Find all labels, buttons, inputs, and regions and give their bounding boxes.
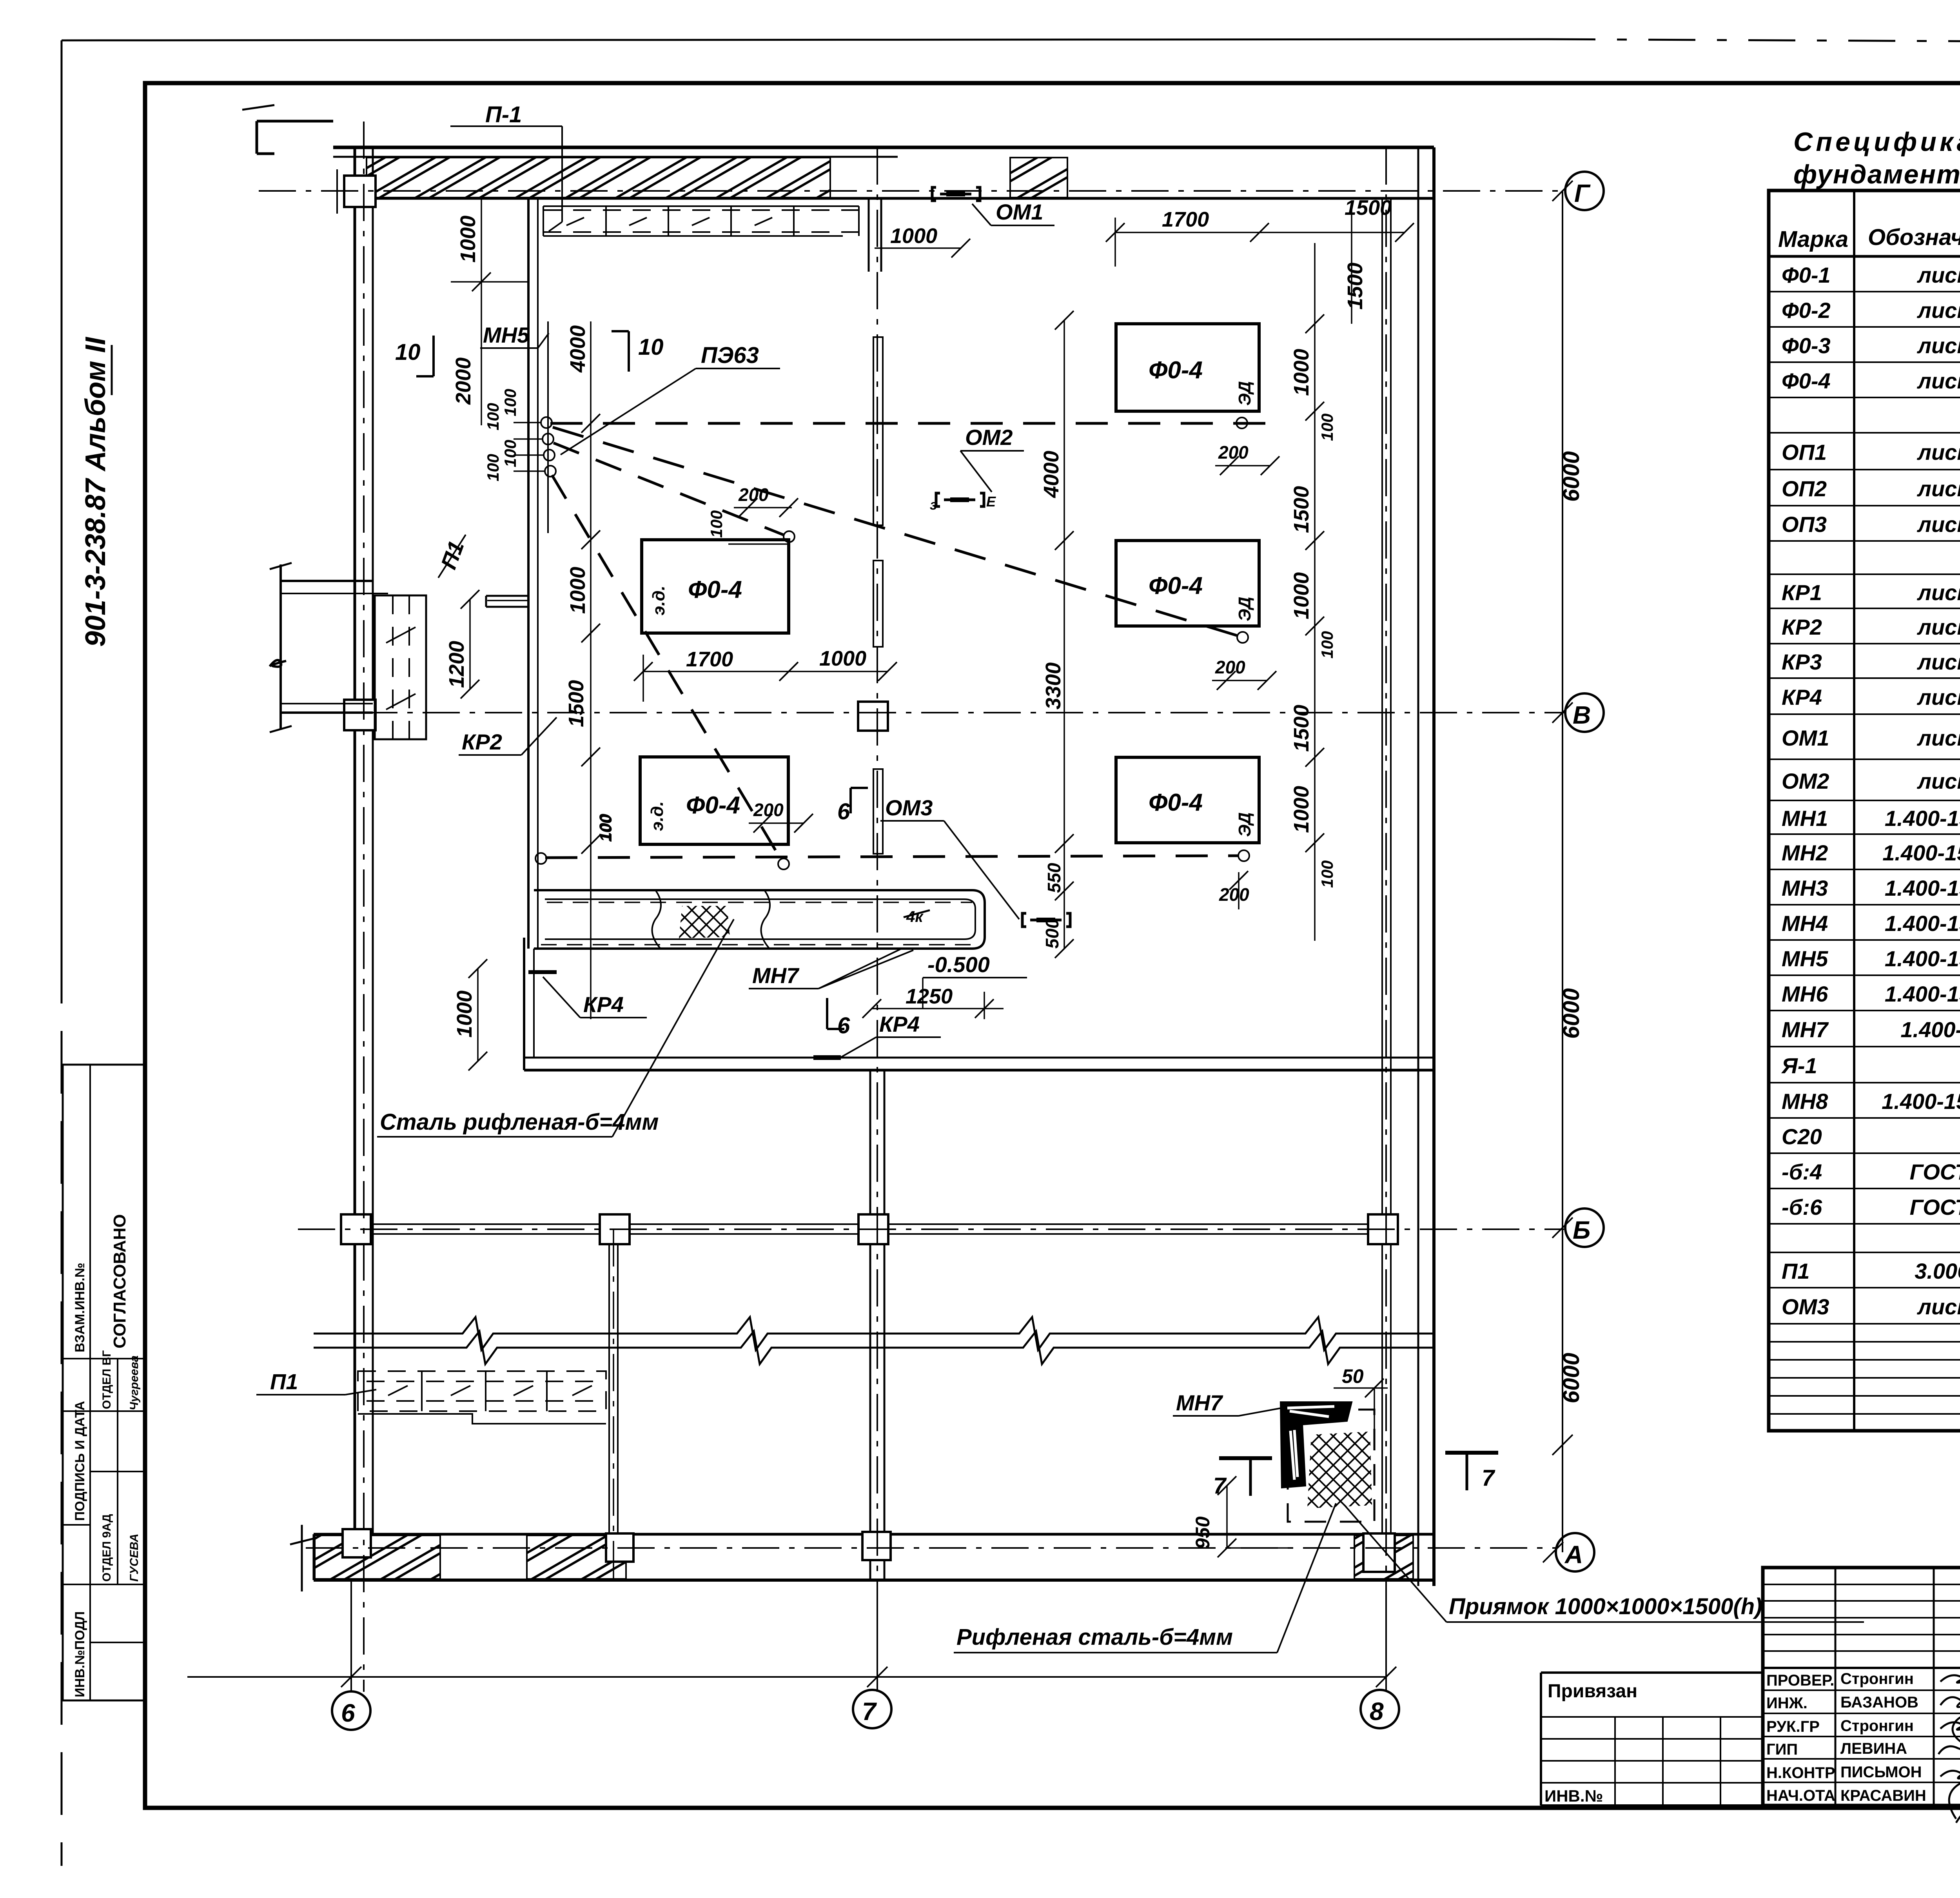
axis 7 wall lower part xyxy=(869,1070,871,1580)
svg-text:Чугреева: Чугреева xyxy=(128,1355,141,1410)
svg-text:КР4: КР4 xyxy=(1782,685,1822,709)
foundation FO-4 low left xyxy=(640,757,788,844)
svg-text:КР1: КР1 xyxy=(1782,580,1822,605)
svg-text:КРАСАВИН: КРАСАВИН xyxy=(1840,1787,1926,1804)
svg-text:ВЗАМ.ИНВ.№: ВЗАМ.ИНВ.№ xyxy=(73,1263,87,1352)
dashed long diagonal to right anchor xyxy=(553,427,1238,636)
svg-text:лист КЖ 32: лист КЖ 32 xyxy=(1916,263,1960,287)
lower long dashed line xyxy=(545,856,1239,858)
svg-text:500: 500 xyxy=(1042,918,1062,949)
upper long dashed line xyxy=(550,422,1266,425)
column on axis G left xyxy=(344,176,376,207)
svg-text:НАЧ.ОТА: НАЧ.ОТА xyxy=(1766,1787,1835,1804)
svg-text:1.400-15.В1 520: 1.400-15.В1 520 xyxy=(1900,1017,1960,1042)
bottom wall xyxy=(314,1533,1434,1536)
svg-text:Ф0-3: Ф0-3 xyxy=(1782,333,1831,358)
svg-text:ПЭ63: ПЭ63 xyxy=(701,343,759,368)
dim chain 4000/3300 x2715 xyxy=(1063,320,1065,949)
columns on axis B row xyxy=(341,1214,371,1244)
svg-text:Ф0-4: Ф0-4 xyxy=(686,792,740,819)
section mark T7 right xyxy=(1445,1451,1498,1455)
svg-text:лист КЖ 33: лист КЖ 33 xyxy=(1916,650,1960,674)
axis 7 wall stub below top wall xyxy=(868,198,870,272)
svg-text:2000: 2000 xyxy=(452,357,475,405)
svg-text:фундаментов под оборудование: фундаментов под оборудование xyxy=(1793,160,1960,189)
axis V horizontal xyxy=(298,712,1564,713)
svg-text:1500: 1500 xyxy=(564,680,588,727)
svg-text:1000: 1000 xyxy=(456,216,480,263)
MN7 corner angle xyxy=(1281,1402,1352,1488)
axis 6 vertical xyxy=(363,122,365,1692)
intermediate axis vertical lower-left xyxy=(613,1229,614,1580)
dim 1200 xyxy=(469,599,471,689)
svg-text:лист КЖ 32: лист КЖ 32 xyxy=(1916,476,1960,501)
svg-text:лист КЖ 33: лист КЖ 33 xyxy=(1916,580,1960,605)
svg-text:1500: 1500 xyxy=(1343,263,1367,310)
svg-text:7: 7 xyxy=(862,1697,877,1726)
title block outer xyxy=(1763,1568,1960,1805)
svg-text:100: 100 xyxy=(1318,414,1336,441)
pit crosshatch xyxy=(1307,1432,1372,1508)
svg-text:ОТДЕЛ ВГ: ОТДЕЛ ВГ xyxy=(100,1350,113,1409)
svg-text:1250: 1250 xyxy=(906,985,953,1008)
svg-text:Рифленая сталь-б=4мм: Рифленая сталь-б=4мм xyxy=(956,1624,1233,1650)
axis G horizontal xyxy=(259,190,1564,192)
svg-text:ИНВ.№: ИНВ.№ xyxy=(1544,1787,1603,1805)
svg-text:1000: 1000 xyxy=(819,647,866,670)
dim 1000 left of KR4 xyxy=(477,969,479,1061)
right inner pilaster band xyxy=(1381,198,1383,1534)
foundation FO-4 low right xyxy=(1116,757,1259,843)
column on axis B mid xyxy=(858,702,888,731)
svg-text:7: 7 xyxy=(1482,1465,1495,1491)
svg-text:ЭД: ЭД xyxy=(1235,381,1254,406)
axis 7 thin pier upper xyxy=(873,337,883,525)
svg-text:В: В xyxy=(1573,701,1591,729)
svg-text:1.400-15.В1.140-01: 1.400-15.В1.140-01 xyxy=(1885,876,1960,900)
top wall plate channel P-1 xyxy=(543,206,859,236)
top dim 1700/1500 xyxy=(1115,232,1405,233)
svg-text:лист КЖ 32: лист КЖ 32 xyxy=(1916,440,1960,465)
axis B horizontal xyxy=(298,1228,1564,1230)
svg-text:Н.КОНТР: Н.КОНТР xyxy=(1766,1764,1835,1782)
svg-text:лист КЖ 33: лист КЖ 33 xyxy=(1916,769,1960,793)
svg-text:50: 50 xyxy=(1342,1365,1364,1387)
svg-text:6: 6 xyxy=(837,799,850,824)
svg-text:Г: Г xyxy=(1574,179,1591,207)
svg-text:100: 100 xyxy=(501,389,519,416)
axis 7 thin pier below B xyxy=(873,769,883,854)
svg-text:МН7: МН7 xyxy=(1782,1017,1829,1042)
svg-text:1700: 1700 xyxy=(1162,208,1209,231)
top dim 1000 xyxy=(875,247,961,249)
svg-text:1000: 1000 xyxy=(1290,786,1313,833)
svg-text:3300: 3300 xyxy=(1042,662,1065,709)
svg-text:ГОСТ 8568-77: ГОСТ 8568-77 xyxy=(1910,1159,1960,1184)
axis 7 thin pier mid xyxy=(873,561,883,647)
svg-text:4000: 4000 xyxy=(566,325,590,373)
svg-text:100: 100 xyxy=(1318,860,1336,888)
svg-text:Спецификация к схеме располо: Спецификация к схеме расположения xyxy=(1793,127,1960,157)
svg-text:1500: 1500 xyxy=(1290,486,1313,533)
svg-text:КР2: КР2 xyxy=(1782,615,1822,639)
svg-text:П1: П1 xyxy=(270,1369,298,1394)
bottom P1 plate strip xyxy=(358,1371,606,1424)
right wall xyxy=(1417,147,1419,1586)
svg-text:С20: С20 xyxy=(1782,1124,1822,1149)
svg-text:1000: 1000 xyxy=(890,224,937,248)
svg-text:6000: 6000 xyxy=(1559,1353,1584,1403)
svg-text:Ф0-4: Ф0-4 xyxy=(1149,572,1203,599)
left appendage landing xyxy=(270,563,426,739)
svg-text:Стронгин: Стронгин xyxy=(1840,1717,1914,1735)
axis circle 8 xyxy=(1361,1690,1399,1728)
svg-text:ЛЕВИНА: ЛЕВИНА xyxy=(1840,1740,1907,1757)
axis circle G xyxy=(1565,172,1604,210)
svg-text:6: 6 xyxy=(341,1699,355,1727)
columns on bottom wall xyxy=(343,1529,371,1557)
bottom wall hatch segment 2 xyxy=(527,1535,626,1579)
svg-text:3.006.1 - 2/82: 3.006.1 - 2/82 xyxy=(1915,1259,1960,1283)
svg-text:4000: 4000 xyxy=(1040,451,1063,498)
svg-text:100: 100 xyxy=(596,814,614,841)
svg-text:МН4: МН4 xyxy=(1782,911,1828,936)
svg-text:МН5: МН5 xyxy=(483,323,530,347)
svg-text:100: 100 xyxy=(707,510,726,538)
svg-text:6000: 6000 xyxy=(1559,451,1584,502)
svg-text:1000: 1000 xyxy=(566,567,590,614)
svg-text:МН8: МН8 xyxy=(1782,1089,1828,1114)
break line across lower hall xyxy=(314,1317,1434,1350)
svg-text:МН3: МН3 xyxy=(1782,876,1828,900)
svg-text:БАЗАНОВ: БАЗАНОВ xyxy=(1840,1694,1918,1711)
svg-text:200: 200 xyxy=(1218,442,1249,463)
svg-text:Е: Е xyxy=(986,494,996,510)
axis circle B xyxy=(1565,1208,1604,1247)
svg-text:э.д.: э.д. xyxy=(649,586,668,615)
svg-text:лист КЖ 32: лист КЖ 32 xyxy=(1916,368,1960,393)
svg-text:100: 100 xyxy=(501,440,519,467)
bottom wall hatch segment 3 xyxy=(1354,1535,1413,1579)
svg-text:1.400-15.В1. 120-11: 1.400-15.В1. 120-11 xyxy=(1882,840,1960,865)
interior horizontal wall below hall xyxy=(524,1057,1434,1059)
svg-text:ОП2: ОП2 xyxy=(1782,476,1827,501)
svg-text:1000: 1000 xyxy=(1290,572,1313,619)
svg-text:МН5: МН5 xyxy=(1782,946,1828,971)
title block staff rows xyxy=(1766,1670,1926,1804)
svg-text:100: 100 xyxy=(484,454,502,481)
sheet outer cut border left xyxy=(61,40,63,941)
svg-text:Сталь рифленая-б=4мм: Сталь рифленая-б=4мм xyxy=(380,1109,659,1135)
svg-text:МН2: МН2 xyxy=(1782,840,1828,865)
svg-text:Марка: Марка xyxy=(1778,227,1848,252)
svg-text:МН1: МН1 xyxy=(1782,806,1828,831)
svg-text:ОМ1: ОМ1 xyxy=(996,200,1043,224)
dashed diagonal to mid anchor xyxy=(554,443,784,535)
pit square dashed xyxy=(1288,1410,1374,1522)
svg-text:ОТДЕЛ 9АД: ОТДЕЛ 9АД xyxy=(100,1514,113,1582)
svg-text:-б:6: -б:6 xyxy=(1782,1195,1822,1219)
foundation FO-4 top right xyxy=(1116,324,1259,411)
axis 8 vertical xyxy=(1385,147,1387,1692)
svg-text:ГУСЕВА: ГУСЕВА xyxy=(128,1533,141,1582)
svg-text:ЭД: ЭД xyxy=(1235,597,1254,621)
mid dim 1700/1000 xyxy=(643,671,887,672)
svg-text:А: А xyxy=(1564,1541,1583,1569)
svg-text:1200: 1200 xyxy=(445,641,468,688)
section mark 7T left xyxy=(1219,1456,1272,1460)
svg-text:ОМ2: ОМ2 xyxy=(965,425,1013,450)
svg-text:901-3-238.87 Альбом II: 901-3-238.87 Альбом II xyxy=(80,336,111,647)
intermediate column line lower-left xyxy=(608,1245,610,1534)
svg-text:1700: 1700 xyxy=(686,648,733,671)
svg-text:1.400-15.В1.120-05: 1.400-15.В1.120-05 xyxy=(1885,806,1960,831)
svg-text:КР2: КР2 xyxy=(462,729,502,754)
svg-text:Ф0-4: Ф0-4 xyxy=(1782,368,1831,393)
svg-text:1.400-15 В.1 420-03: 1.400-15 В.1 420-03 xyxy=(1882,1089,1960,1114)
svg-text:Ф0-4: Ф0-4 xyxy=(1149,357,1203,384)
left wall xyxy=(354,147,356,1580)
svg-text:1.400-15.В1.140-01: 1.400-15.В1.140-01 xyxy=(1885,982,1960,1006)
svg-text:7: 7 xyxy=(1213,1473,1227,1499)
svg-text:МН7: МН7 xyxy=(1176,1390,1223,1415)
svg-text:200: 200 xyxy=(1219,884,1249,905)
svg-text:лист КЖ 33: лист КЖ 33 xyxy=(1916,615,1960,639)
svg-text:КР4: КР4 xyxy=(879,1012,920,1036)
svg-text:Ф0-4: Ф0-4 xyxy=(688,576,742,603)
svg-text:-б:4: -б:4 xyxy=(1782,1159,1822,1184)
svg-text:1500: 1500 xyxy=(1290,705,1313,752)
svg-text:Стронгин: Стронгин xyxy=(1840,1670,1914,1688)
svg-text:ПРОВЕР.: ПРОВЕР. xyxy=(1766,1672,1834,1689)
svg-text:200: 200 xyxy=(1215,657,1245,677)
svg-text:ИНЖ.: ИНЖ. xyxy=(1766,1695,1808,1712)
svg-text:Ф0-4: Ф0-4 xyxy=(1149,789,1203,816)
svg-text:1.400-15.В1.140-01: 1.400-15.В1.140-01 xyxy=(1885,946,1960,971)
svg-text:ПОДПИСЬ И ДАТА: ПОДПИСЬ И ДАТА xyxy=(73,1401,87,1521)
svg-text:э.д.: э.д. xyxy=(648,801,667,831)
svg-text:4к: 4к xyxy=(906,908,924,925)
top wall of building xyxy=(333,146,1434,149)
svg-text:лист КЖ 32: лист КЖ 32 xyxy=(1916,333,1960,358)
svg-text:10: 10 xyxy=(638,334,664,360)
svg-text:Ф0-2: Ф0-2 xyxy=(1782,298,1831,323)
channel MN7 xyxy=(534,890,985,949)
svg-text:Ф0-1: Ф0-1 xyxy=(1782,263,1831,287)
svg-text:ПИСЬМОН: ПИСЬМОН xyxy=(1840,1764,1922,1781)
axis 7 vertical xyxy=(877,147,878,1692)
svg-text:ОМ3: ОМ3 xyxy=(1782,1294,1829,1319)
axis circle 7 xyxy=(853,1690,891,1728)
svg-text:1.400-15.В1.120-01: 1.400-15.В1.120-01 xyxy=(1885,911,1960,936)
top wall hatch segment 1 xyxy=(367,158,830,198)
svg-text:100: 100 xyxy=(484,403,502,430)
svg-text:ОМ1: ОМ1 xyxy=(1782,726,1829,750)
svg-text:6: 6 xyxy=(837,1013,850,1038)
dashed steep diagonal to lower anchor xyxy=(552,475,781,859)
svg-text:МН6: МН6 xyxy=(1782,982,1828,1006)
svg-text:П1: П1 xyxy=(1782,1259,1809,1283)
channel crosshatch blob xyxy=(679,906,730,938)
wall stub left of interior wall xyxy=(486,595,528,597)
svg-text:Привязан: Привязан xyxy=(1548,1681,1637,1702)
bottom wall end ticks xyxy=(301,1525,303,1591)
beams on axis B xyxy=(371,1223,600,1225)
sheet outer cut border top xyxy=(62,39,1548,40)
axis A horizontal xyxy=(306,1547,1555,1549)
bottom wall hatch segment 1 xyxy=(315,1535,440,1579)
svg-text:лист КЖ 32: лист КЖ 32 xyxy=(1916,512,1960,537)
svg-text:Б: Б xyxy=(1573,1216,1590,1244)
svg-text:1000: 1000 xyxy=(453,991,476,1038)
bottom dimension line between axes xyxy=(187,1676,1386,1678)
axis circle 6 xyxy=(332,1691,370,1730)
svg-text:ГИП: ГИП xyxy=(1766,1741,1798,1758)
svg-text:ОП3: ОП3 xyxy=(1782,512,1827,537)
interior wall left piece near channel xyxy=(523,938,525,1070)
svg-text:Обозначение: Обозначение xyxy=(1868,225,1960,250)
svg-text:лист КЖ 33: лист КЖ 33 xyxy=(1916,1294,1960,1319)
svg-text:КР4: КР4 xyxy=(583,992,624,1017)
anchor circles cluster xyxy=(541,417,552,428)
signatures squiggles xyxy=(1938,1669,1960,1823)
svg-text:лист КЖ 33: лист КЖ 33 xyxy=(1916,685,1960,709)
foundation FO-4 mid right xyxy=(1116,541,1259,626)
channel 4k mark xyxy=(904,910,930,917)
svg-text:лист КЖ 32: лист КЖ 32 xyxy=(1916,298,1960,323)
axis circle V xyxy=(1565,693,1604,732)
svg-text:550: 550 xyxy=(1044,863,1064,893)
svg-text:ОМ2: ОМ2 xyxy=(1782,769,1829,793)
svg-text:ЭД: ЭД xyxy=(1235,812,1254,837)
foundation FO-4 mid left xyxy=(642,540,789,633)
svg-text:-0.500: -0.500 xyxy=(927,952,990,977)
interior vertical wall on axis with MN5 xyxy=(527,198,530,949)
top wall hatch segment 2 xyxy=(1010,158,1067,198)
svg-text:ГОСТ 8568-77: ГОСТ 8568-77 xyxy=(1910,1195,1960,1219)
svg-text:Приямок 1000×1000×1500(h): Приямок 1000×1000×1500(h) xyxy=(1449,1594,1762,1619)
column on axis B left xyxy=(344,700,376,730)
privyazan block xyxy=(1541,1673,1763,1805)
svg-text:1000: 1000 xyxy=(1290,349,1313,396)
left dim chain 1000/2000 xyxy=(481,198,482,425)
svg-text:КР3: КР3 xyxy=(1782,650,1822,674)
sidebar table xyxy=(63,1065,145,1700)
right top 1500 vertical xyxy=(1351,208,1352,324)
svg-text:П-1: П-1 xyxy=(485,102,522,127)
right dimension line 6000 chain xyxy=(1562,191,1563,1552)
axis circle A xyxy=(1556,1533,1594,1571)
top wall left pilaster xyxy=(257,121,333,154)
dim chain 4000/1000/1500 at x1507 xyxy=(590,321,592,1019)
right chain x3354 xyxy=(1314,243,1316,941)
svg-text:100: 100 xyxy=(1318,631,1336,659)
svg-text:лист КЖ 33: лист КЖ 33 xyxy=(1916,726,1960,750)
svg-text:СОГЛАСОВАНО: СОГЛАСОВАНО xyxy=(110,1214,129,1348)
svg-text:РУК.ГР: РУК.ГР xyxy=(1766,1718,1820,1735)
spec table grid xyxy=(1769,191,1960,1431)
svg-text:ИНВ.№ПОДЛ: ИНВ.№ПОДЛ xyxy=(73,1611,87,1697)
svg-text:ОМ3: ОМ3 xyxy=(885,795,933,820)
anchor circle right of top-right foundation xyxy=(1236,417,1247,428)
svg-text:10: 10 xyxy=(395,339,421,365)
svg-text:ОП1: ОП1 xyxy=(1782,440,1827,465)
svg-text:Я-1: Я-1 xyxy=(1781,1053,1817,1078)
svg-text:з: з xyxy=(930,497,937,513)
svg-text:МН7: МН7 xyxy=(752,963,800,988)
svg-text:950: 950 xyxy=(1192,1516,1214,1549)
svg-text:6000: 6000 xyxy=(1559,988,1584,1039)
svg-text:8: 8 xyxy=(1370,1697,1384,1726)
